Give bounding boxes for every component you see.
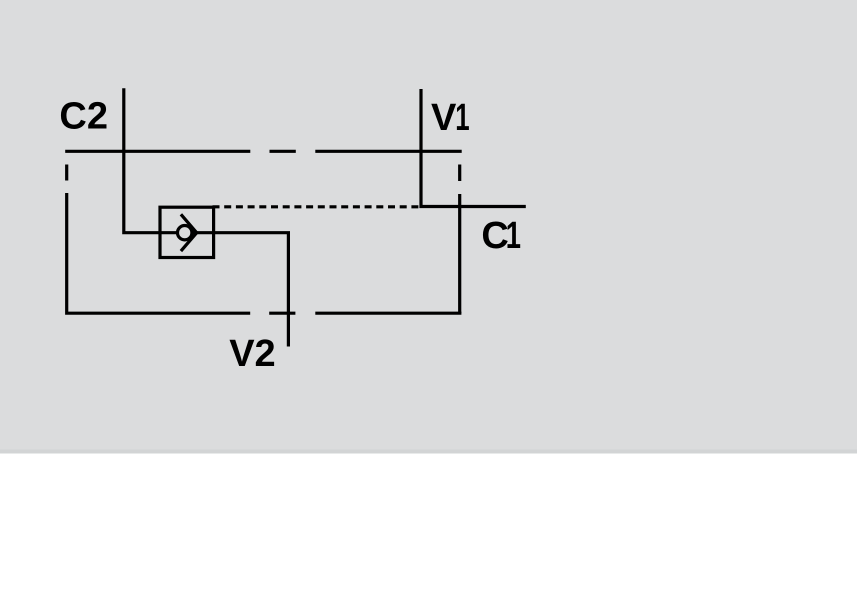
svg-text:V: V: [431, 97, 457, 139]
svg-text:C2: C2: [59, 95, 108, 137]
svg-text:C: C: [481, 215, 508, 257]
svg-text:V2: V2: [229, 333, 275, 375]
svg-text:1: 1: [506, 215, 521, 257]
svg-text:1: 1: [455, 96, 469, 138]
